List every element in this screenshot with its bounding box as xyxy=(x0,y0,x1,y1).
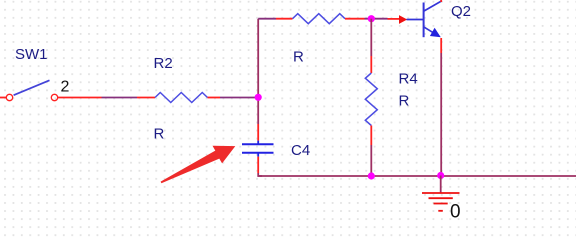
wire: red lead into R2 xyxy=(137,97,155,99)
wire: red lead into top resistor xyxy=(276,18,293,20)
wire: capacitor bottom red stub xyxy=(257,157,259,173)
resistor R4 body xyxy=(365,73,377,126)
resistor R (top) body xyxy=(293,14,346,24)
wire: collector stub exiting top xyxy=(440,0,442,2)
ground bar 4 xyxy=(438,210,443,212)
svg-text:SW1: SW1 xyxy=(15,46,48,63)
wire: bottom bus (plum) xyxy=(258,175,576,177)
svg-text:R: R xyxy=(154,126,165,143)
annotation arrow pointing at C4 xyxy=(161,146,236,184)
wire: R2 right lead (red) xyxy=(208,97,221,99)
transistor Q2 base lead xyxy=(407,19,424,21)
svg-text:C4: C4 xyxy=(291,142,310,159)
wire: red segment to base marker xyxy=(388,18,400,20)
wire: R4 top lead (red) xyxy=(370,56,372,73)
switch SW1 terminal pin 2 xyxy=(51,94,57,100)
ground stem xyxy=(440,176,442,193)
wire: R4 bottom lead (red) xyxy=(370,126,372,146)
node A junction dot xyxy=(255,94,262,101)
capacitor C4 top pin stub xyxy=(257,141,259,144)
svg-text:R: R xyxy=(293,48,304,65)
capacitor C4 bottom pin stub xyxy=(257,153,259,157)
switch SW1 lever xyxy=(14,80,50,95)
base input marker arrow xyxy=(399,15,407,24)
ground bar 3 xyxy=(434,203,448,205)
svg-text:Q2: Q2 xyxy=(451,3,471,20)
svg-text:R4: R4 xyxy=(399,71,418,88)
node D junction dot (emitter/ground) xyxy=(437,172,444,179)
wire: R4 bottom lead (plum) xyxy=(370,145,372,176)
wire: left lead into SW1 pin 1 xyxy=(0,97,6,99)
capacitor C4 top plate xyxy=(242,143,274,145)
wire: left vertical riser (plum) xyxy=(257,19,259,124)
svg-text:0: 0 xyxy=(450,201,461,222)
ground bar 1 xyxy=(422,192,460,194)
wire: emitter vertical run (plum) xyxy=(440,53,442,176)
transistor Q2 emitter xyxy=(424,27,434,33)
wire: R4 top lead (plum) xyxy=(370,19,372,56)
node B junction dot xyxy=(368,15,375,22)
wire: purple segment through node B xyxy=(365,18,388,20)
resistor R2 body xyxy=(155,93,208,103)
wire: purple segment into node A xyxy=(220,97,257,99)
wire: SW1 pin2 to node (red segment) xyxy=(58,97,102,99)
transistor Q2 base bar xyxy=(423,3,425,38)
capacitor C4 bottom plate xyxy=(242,152,274,154)
wire: top resistor right lead (red) xyxy=(345,18,365,20)
wire: purple segment xyxy=(102,97,138,99)
wire: emitter red stub xyxy=(440,38,442,53)
ground bar 2 xyxy=(429,197,453,199)
wire: bottom bus corner xyxy=(258,173,262,176)
transistor Q2 collector xyxy=(424,1,441,11)
node C junction dot (R4 bottom) xyxy=(368,172,375,179)
switch SW1 terminal pin 1 xyxy=(6,94,12,100)
wire: top purple corner segment xyxy=(258,18,276,20)
svg-text:2: 2 xyxy=(61,79,70,96)
wire: red stub into capacitor top xyxy=(257,124,259,141)
svg-text:R: R xyxy=(399,93,410,110)
svg-text:R2: R2 xyxy=(154,55,173,72)
transistor Q2 emitter arrowhead xyxy=(430,28,441,38)
